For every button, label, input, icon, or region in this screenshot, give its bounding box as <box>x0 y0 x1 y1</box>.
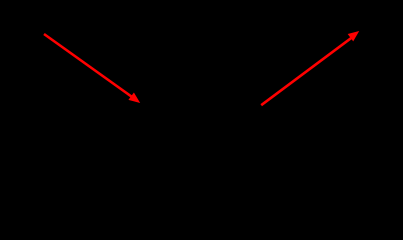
wire <box>261 38 351 105</box>
node B <box>348 31 360 41</box>
wire <box>44 34 134 98</box>
node A <box>128 93 140 104</box>
